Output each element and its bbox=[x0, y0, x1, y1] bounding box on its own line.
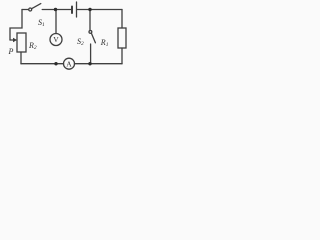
svg-text:A: A bbox=[66, 59, 72, 68]
svg-text:P: P bbox=[8, 47, 14, 56]
svg-text:V: V bbox=[53, 35, 59, 44]
